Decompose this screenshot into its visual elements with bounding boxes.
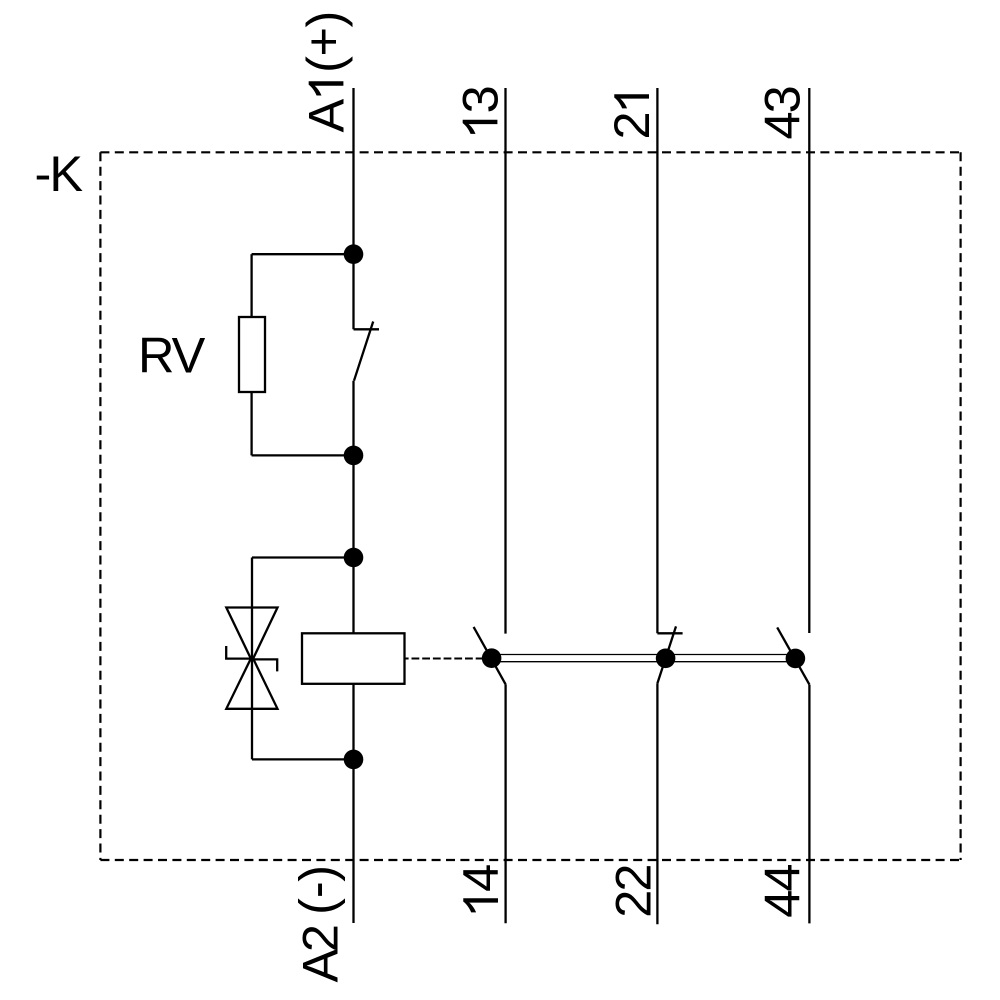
svg-text:): ): [289, 867, 346, 882]
suppressor diode V1 right cathode bar with hook: [252, 659, 277, 671]
junction dot 3: [344, 548, 364, 568]
junction dot 4: [344, 750, 364, 770]
junction dot 2: [344, 446, 364, 466]
svg-text:(: (: [296, 56, 353, 73]
terminal label 44: [754, 865, 811, 918]
wire contact 44 lower: [808, 685, 810, 924]
wire contact 22 lower: [656, 684, 658, 925]
wire junction3 to coil: [352, 558, 354, 634]
junction dot 1: [344, 244, 364, 264]
wire junction1 down to switch: [352, 254, 354, 329]
terminal label A2 (-): [288, 867, 349, 983]
linkage dot contact 13-14: [482, 648, 502, 668]
wire switch to junction2: [352, 381, 354, 456]
wire coil to junction4: [352, 684, 354, 760]
svg-text:): ): [296, 13, 353, 28]
wire A1 top lead: [352, 88, 354, 254]
contact 43-44 blade (NO): [777, 627, 809, 684]
terminal label 14: [452, 865, 509, 913]
mechanical linkage double line: [492, 654, 796, 656]
svg-text:A: A: [297, 99, 354, 133]
terminal label 21: [603, 94, 660, 139]
svg-text:3: 3: [754, 87, 811, 113]
svg-text:(: (: [289, 898, 346, 915]
svg-text:2: 2: [292, 926, 349, 952]
wire junction1 to RV branch: [252, 253, 354, 255]
enclosure -K (dashed boundary): [100, 152, 960, 860]
svg-text:2: 2: [605, 865, 662, 891]
switch S1 stop bar: [354, 328, 380, 330]
contact 21-22 blade (NC): [657, 626, 676, 683]
svg-text:4: 4: [754, 865, 811, 892]
wire RV branch upper: [250, 254, 252, 317]
wire contact 21 upper: [656, 88, 658, 633]
svg-text:-K: -K: [35, 145, 84, 202]
suppressor diode V1 top triangle: [226, 608, 277, 662]
linkage dot contact 21-22: [656, 649, 676, 669]
svg-text:+: +: [295, 29, 352, 57]
wire A2 bottom lead: [352, 759, 354, 923]
suppressor diode V1 bottom triangle: [226, 656, 277, 709]
wire suppressor branch vertical: [251, 558, 253, 760]
wire junction2 to junction3: [352, 455, 354, 557]
wire junction3 to suppressor branch: [252, 556, 354, 558]
wire suppressor branch to junction4: [252, 758, 354, 760]
contact 21-22 stop bar (NC): [657, 632, 682, 634]
suppressor diode V1 left cathode bar with hook: [226, 646, 252, 659]
terminal label 43: [754, 87, 811, 139]
svg-text:3: 3: [451, 87, 508, 113]
svg-text:RV: RV: [138, 326, 206, 383]
wire RV branch lower: [250, 392, 252, 455]
wire RV branch to junction2: [252, 454, 354, 456]
svg-text:4: 4: [754, 891, 811, 918]
wire contact 13 upper: [504, 88, 506, 634]
terminal label A1(+): [295, 13, 355, 133]
svg-text:A: A: [292, 949, 349, 983]
relay coil K1: [302, 633, 405, 684]
wire contact 43 upper: [808, 88, 810, 633]
terminal label 22: [605, 865, 662, 917]
svg-text:2: 2: [603, 113, 660, 139]
linkage dot contact 43-44: [786, 649, 806, 669]
contact 13-14 blade (NO): [474, 627, 506, 684]
svg-text:2: 2: [605, 892, 662, 918]
dashed actuating link coil to contacts: [404, 658, 482, 660]
svg-text:4: 4: [754, 113, 811, 140]
resistor RV (varistor body): [239, 317, 265, 392]
svg-text:4: 4: [452, 865, 509, 892]
svg-text:-: -: [288, 883, 345, 898]
switch S1 blade: [354, 322, 373, 381]
terminal label 13: [451, 87, 508, 134]
wire contact 14 lower: [504, 684, 506, 923]
